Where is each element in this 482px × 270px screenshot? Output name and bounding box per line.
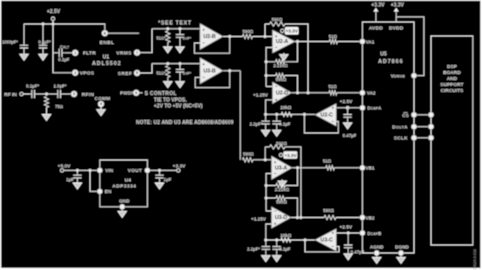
svg-text:590Ω: 590Ω — [242, 29, 253, 34]
svg-text:−: − — [202, 75, 205, 80]
resistor Rnet2 — [156, 66, 170, 78]
svg-text:2.21kΩ: 2.21kΩ — [275, 187, 290, 192]
junction railA fb — [303, 113, 306, 116]
junction reg cin — [76, 169, 79, 172]
label AD7866 — [378, 59, 403, 65]
svg-text:GND: GND — [119, 198, 130, 203]
label AVDD — [369, 25, 383, 31]
wire railA1 left — [265, 23, 270, 25]
capacitor C4 1uF series — [47, 90, 72, 98]
junction net1 C — [179, 27, 182, 30]
wire plus node up B — [264, 147, 266, 160]
ground Cnet1 — [176, 47, 184, 53]
pin DSP SCLK — [428, 135, 433, 140]
label COMM — [95, 96, 111, 101]
label U4 — [125, 177, 132, 183]
wire U3-C plus to dcapB — [336, 232, 362, 234]
label Cnet1 — [183, 36, 192, 41]
svg-text:AND: AND — [447, 76, 458, 82]
capacitor CFLT — [58, 49, 66, 57]
junction net2 R — [166, 62, 169, 65]
ground 0.47uF B — [344, 254, 352, 260]
label VPOS — [80, 71, 95, 77]
wire DOUTA to DSP — [417, 126, 429, 128]
svg-text:VB2: VB2 — [366, 215, 375, 220]
svg-text:BOARD: BOARD — [443, 70, 461, 76]
wire +2.5V stem — [52, 20, 54, 24]
label cap 0.1uF A — [279, 121, 290, 126]
svg-text:0.1µF*: 0.1µF* — [38, 39, 51, 44]
label DGND — [395, 244, 409, 249]
label DSP line1 — [447, 64, 458, 70]
wire U2-A minus — [266, 48, 272, 87]
resistor RoutB2 590 — [323, 208, 336, 220]
capacitor reg Cout — [155, 170, 163, 183]
wire vpos drop — [53, 24, 73, 73]
capacitor C2 0.1uF — [39, 24, 47, 54]
label GND — [119, 198, 130, 203]
op-amp U3-B — [200, 58, 223, 84]
svg-text:CS: CS — [402, 113, 409, 118]
svg-text:U5: U5 — [380, 51, 387, 57]
pin VIN — [97, 168, 102, 173]
wire U3-D minus — [266, 210, 271, 212]
wire 10k rail B — [266, 239, 315, 241]
ground Cnet2 — [176, 82, 184, 88]
wire U3-D out — [291, 217, 324, 219]
svg-text:0.1µF: 0.1µF — [279, 121, 290, 126]
pin DOUTA — [411, 124, 416, 129]
svg-text:51Ω: 51Ω — [323, 159, 332, 164]
resistor RinB 590 — [243, 152, 255, 162]
label VIN — [105, 168, 113, 173]
junction U3-D out fb — [296, 216, 299, 219]
svg-text:SREF: SREF — [118, 71, 132, 77]
label RFIN — [82, 92, 95, 98]
svg-text:+3.3V: +3.3V — [371, 2, 385, 8]
wire U3-B to channel B — [239, 71, 241, 160]
wire rnet2 stem — [167, 77, 169, 81]
label VA1 — [366, 39, 375, 44]
svg-text:0.47µF: 0.47µF — [343, 133, 357, 138]
wire RinB to U3-A — [253, 159, 272, 161]
junction dcapA cap node — [346, 107, 349, 110]
pin DSP CS — [428, 112, 433, 117]
junction reg en — [89, 169, 92, 172]
svg-text:2.2µF*: 2.2µF* — [250, 121, 263, 126]
svg-text:COMM: COMM — [95, 96, 111, 101]
wire EN branch — [90, 170, 97, 191]
label cap 2.2uF A — [250, 121, 263, 126]
terminal +5V — [60, 169, 63, 172]
label +3.3V dvdd — [391, 2, 405, 8]
svg-text:VDRIVE: VDRIVE — [391, 74, 406, 79]
svg-text:DGND: DGND — [395, 244, 409, 249]
label DSP line4 — [440, 82, 463, 88]
op-amp U3-C — [315, 229, 336, 251]
label DVDD — [389, 25, 404, 31]
junction U3-D out cross — [299, 216, 302, 219]
pin 6 PWDN of U1 — [133, 90, 139, 96]
pin 8 ENBL of U1 — [102, 30, 108, 36]
resistor Rnet1 — [156, 31, 170, 43]
label VB2 — [366, 215, 375, 220]
svg-text:VOUT: VOUT — [128, 168, 143, 173]
note about U2 U3 — [136, 120, 234, 126]
label EN — [105, 189, 112, 194]
junction railA cap2 — [275, 113, 278, 116]
wire U2-B feedback — [194, 37, 229, 54]
pin VB2 — [360, 215, 365, 220]
svg-text:U2-B: U2-B — [203, 34, 216, 40]
wire gnd stem — [121, 210, 123, 212]
junction fbA1 — [265, 60, 268, 63]
label ENBL — [100, 40, 115, 46]
pin GND — [120, 204, 125, 209]
supply arrow DVDD — [394, 8, 399, 17]
ground COMM — [97, 110, 105, 116]
wire U2-A vminus stem — [283, 53, 285, 55]
ground C1 — [20, 54, 28, 60]
ground reg Cout — [155, 183, 163, 189]
pin DSP DOUTA — [428, 124, 433, 129]
svg-text:2.21kΩ: 2.21kΩ — [273, 63, 288, 68]
wire U2-B out — [223, 36, 243, 38]
label DSP line2 — [443, 70, 461, 76]
label Cnet2 — [183, 71, 192, 76]
label cout 1uF — [164, 177, 172, 182]
terminal +3.3V — [177, 169, 180, 172]
svg-text:+1.25V: +1.25V — [251, 216, 267, 221]
ground U2-A — [280, 55, 288, 61]
resistor R10kA — [280, 105, 292, 117]
ADC U5 AD7866 box — [362, 22, 414, 253]
ground regulator — [118, 211, 126, 217]
svg-text:+: + — [202, 62, 205, 67]
svg-text:NOTE: U2 AND U3 ARE AD8608/AD8: NOTE: U2 AND U3 ARE AD8608/AD8609 — [136, 120, 234, 126]
svg-text:1nF*: 1nF* — [183, 71, 192, 76]
capacitor Cnet1 — [176, 29, 184, 47]
svg-text:51Ω*: 51Ω* — [156, 36, 166, 41]
label DOUTA — [392, 125, 408, 130]
label FLTR — [83, 51, 96, 57]
resistor RfB1 590 top — [270, 141, 288, 149]
pin CS — [411, 112, 416, 117]
wire fbA2 wires — [266, 76, 297, 93]
svg-text:1.0µF*: 1.0µF* — [53, 84, 66, 89]
junction railB fb — [304, 239, 307, 242]
svg-text:DCAPA: DCAPA — [367, 106, 382, 111]
pin VB1 — [360, 165, 365, 170]
wire VRMS to rail — [139, 29, 152, 53]
label +5.0V — [58, 163, 71, 169]
svg-text:DVDD: DVDD — [389, 25, 404, 31]
svg-text:−: − — [331, 119, 334, 124]
svg-text:590Ω: 590Ω — [243, 152, 254, 157]
junction rail C2 — [42, 23, 45, 26]
svg-text:AGND: AGND — [370, 244, 384, 249]
wire +2.5V rail — [24, 24, 105, 31]
wire U3-C feedback — [305, 240, 339, 252]
resistor R10kB — [280, 233, 292, 242]
label +1.25V node B — [251, 216, 267, 221]
resistor RoutA2 51 — [328, 84, 337, 95]
label C3 value — [26, 84, 39, 89]
wire dvdd stem — [395, 17, 397, 22]
resistor R1 75 ohm shunt — [44, 97, 62, 110]
wire RinA to U2-A — [253, 36, 273, 38]
svg-text:−: − — [275, 84, 278, 89]
pin 1 FLTR of U1 — [72, 50, 78, 56]
svg-text:1µF: 1µF — [66, 177, 74, 182]
op-amp U2-B — [200, 24, 223, 50]
svg-text:1nF*: 1nF* — [183, 36, 192, 41]
svg-text:0.1µF: 0.1µF — [279, 247, 290, 252]
op-amp U2-C — [315, 104, 336, 126]
svg-text:U4: U4 — [125, 177, 132, 183]
label DSP line5 — [441, 88, 464, 94]
svg-text:−: − — [274, 171, 277, 176]
resistor RoutB1 51 — [323, 159, 335, 170]
capacitor 2.2uF B — [262, 240, 270, 256]
wire rail to U2-B — [152, 28, 200, 30]
capacitor 0.1uF A — [273, 114, 281, 130]
label SREF — [118, 71, 132, 77]
label +2.5V dcapA — [340, 99, 353, 105]
wire 10k rail A — [266, 113, 315, 115]
wire U2-A out — [295, 41, 329, 43]
svg-text:+3.3V: +3.3V — [391, 2, 405, 8]
overline CS — [404, 112, 408, 114]
svg-text:+: + — [274, 221, 277, 226]
pin 4 COMM of U1 — [98, 101, 104, 107]
supply arrow AVDD — [373, 8, 378, 22]
svg-text:590Ω: 590Ω — [323, 208, 334, 213]
pin DCAPB — [360, 230, 365, 235]
svg-text:+2.5V: +2.5V — [47, 9, 61, 15]
note pwdn line2 — [154, 98, 187, 104]
label DCAPA — [367, 106, 382, 111]
svg-text:DOUTA: DOUTA — [392, 125, 408, 130]
svg-text:U3-D: U3-D — [275, 215, 288, 221]
ground 0.1uF A — [273, 130, 281, 136]
capacitor C1 1000pF — [20, 24, 28, 54]
svg-text:SCLK: SCLK — [394, 136, 408, 141]
label CS — [402, 113, 409, 118]
svg-text:*SEE TEXT: *SEE TEXT — [158, 20, 192, 26]
svg-text:+: + — [275, 97, 278, 102]
pin 5 SREF of U1 — [134, 70, 140, 76]
svg-text:+: + — [274, 160, 277, 165]
junction U2-A out fb — [296, 40, 299, 43]
svg-text:U1: U1 — [103, 55, 110, 61]
label U5 — [380, 51, 387, 57]
svg-text:0.1µF: 0.1µF — [58, 57, 69, 62]
junction fbA2 — [265, 74, 268, 77]
pin AGND — [374, 250, 379, 255]
wire to VA1 — [338, 41, 363, 43]
svg-text:−: − — [331, 244, 334, 249]
label +2.5V dcapB — [339, 224, 352, 230]
junction U2-A plus node — [264, 35, 267, 38]
wire plus node up — [264, 24, 266, 37]
junction railB cap2 — [275, 239, 278, 242]
wire railA1 right — [285, 24, 308, 93]
svg-text:+5.0V: +5.0V — [58, 163, 71, 169]
svg-text:590Ω: 590Ω — [276, 77, 287, 82]
svg-text:+3.3V: +3.3V — [173, 163, 186, 169]
resistor RfbA 2.21k — [273, 60, 288, 69]
svg-text:1000pF*: 1000pF* — [2, 39, 18, 44]
svg-text:U2-D: U2-D — [276, 91, 289, 97]
note pwdn line3 — [154, 104, 203, 110]
wire pin8 stub — [107, 32, 139, 34]
svg-text:ADP3334: ADP3334 — [112, 184, 136, 190]
label see text — [158, 20, 192, 26]
svg-text:51Ω: 51Ω — [329, 34, 338, 39]
label ADP3334 — [112, 184, 136, 190]
junction fbB2 — [265, 197, 268, 200]
svg-text:590Ω: 590Ω — [276, 200, 287, 205]
wire rail to U3-B — [152, 63, 200, 65]
figure watermark — [473, 249, 477, 269]
label CFLT — [60, 44, 70, 49]
svg-text:DCAPB: DCAPB — [367, 231, 382, 236]
wire rnet1 stem — [167, 43, 169, 47]
svg-text:2.2µF*: 2.2µF* — [247, 247, 260, 252]
svg-text:VPOS: VPOS — [80, 71, 95, 77]
label VA2 — [367, 91, 376, 96]
junction fbB1 — [265, 184, 268, 187]
pin SCLK — [411, 135, 416, 140]
label VOUT — [128, 168, 143, 173]
terminal RF input — [20, 92, 23, 95]
op-amp U3-D — [272, 207, 292, 229]
svg-text:RFIN: RFIN — [82, 92, 95, 98]
ground Rnet2 — [164, 82, 172, 88]
wire fbB1 wires — [266, 168, 297, 186]
svg-text:U3-B: U3-B — [203, 69, 216, 75]
pin 7 VRMS of U1 — [134, 50, 140, 56]
pin EN — [97, 189, 102, 194]
pin DGND — [398, 250, 403, 255]
wire U3-A minus — [266, 174, 271, 212]
svg-text:+3.3V: +3.3V — [286, 29, 299, 34]
label cin 1uF — [66, 177, 74, 182]
resistor RfbB 2.21k — [275, 183, 290, 192]
label 0.47uF A — [343, 133, 357, 138]
svg-text:−: − — [274, 209, 277, 214]
pin VA2 — [360, 90, 365, 95]
terminal +2.5V — [51, 17, 54, 20]
svg-text:+: + — [331, 231, 334, 236]
label C4 value — [53, 84, 66, 89]
wire to VB1 — [334, 167, 362, 169]
supply U2-A +3.3V — [281, 27, 299, 35]
svg-text:+1.25V: +1.25V — [253, 93, 269, 98]
ground Rnet1 — [164, 47, 172, 53]
svg-text:0.1µF*: 0.1µF* — [26, 84, 39, 89]
ground C2 — [39, 54, 47, 60]
label C2 value 0.1uF — [38, 39, 51, 44]
wire U2-C feedback — [304, 114, 338, 133]
ground shunt resistor — [42, 115, 50, 121]
ground reg Cin — [73, 183, 81, 189]
wire U3-A vminus stem — [281, 180, 283, 182]
capacitor C3 0.1uF series — [29, 90, 47, 98]
wire SREF to rail — [139, 64, 152, 73]
junction railB cap1 — [264, 239, 267, 242]
label VB1 — [366, 166, 375, 171]
junction U2-D out cross — [307, 91, 310, 94]
svg-text:U3-A: U3-A — [275, 165, 288, 171]
supply U3-A +3.3V — [279, 151, 297, 159]
svg-text:+: + — [202, 28, 205, 33]
junction U3-B out — [228, 69, 231, 72]
op-amp U2-D — [273, 82, 292, 104]
svg-text:VRMS: VRMS — [116, 50, 132, 56]
svg-text:DSP: DSP — [447, 64, 458, 70]
pin 3 RFIN of U1 — [71, 91, 77, 97]
svg-text:51Ω*: 51Ω* — [156, 71, 166, 76]
label DCAPB — [367, 231, 382, 236]
wire fltr to pin — [65, 52, 73, 54]
wire reg output — [150, 169, 177, 171]
regulator U4 box — [100, 160, 148, 207]
op-amp U3-A — [272, 156, 293, 180]
wire fbA1 wires — [266, 42, 297, 62]
note pwdn line1 — [145, 91, 177, 97]
wire to VA2 — [337, 92, 363, 94]
ground DGND — [397, 257, 405, 263]
label RF IN — [4, 92, 17, 98]
wire U2-D out — [292, 92, 330, 94]
wire comm stem — [100, 106, 102, 109]
ground 0.1uF B — [273, 256, 281, 262]
svg-text:VIN: VIN — [105, 168, 113, 173]
wire pwdn dash — [139, 92, 143, 94]
ground 2.2uF B — [262, 256, 270, 262]
svg-text:04624-0-038: 04624-0-038 — [473, 249, 477, 269]
label PWDN — [120, 91, 135, 96]
svg-text:590Ω: 590Ω — [276, 141, 287, 146]
svg-text:VB1: VB1 — [366, 166, 375, 171]
svg-text:1µF: 1µF — [164, 177, 172, 182]
junction reg cout — [158, 169, 161, 172]
svg-text:VA1: VA1 — [366, 39, 375, 44]
label CFLT value 0.1uF — [58, 57, 69, 62]
svg-text:10kΩ: 10kΩ — [280, 105, 292, 110]
resistor RfbD2 590 — [276, 196, 287, 205]
svg-text:U3-C: U3-C — [321, 238, 334, 244]
resistor RinA 590 — [242, 29, 253, 39]
pin VOUT — [145, 168, 150, 173]
svg-text:+2V TO +5V (NC=5V): +2V TO +5V (NC=5V) — [154, 104, 203, 110]
svg-text:AD7866: AD7866 — [378, 59, 403, 65]
label DSP line3 — [447, 76, 458, 82]
junction dcapB cap node — [347, 232, 350, 235]
svg-text:590Ω: 590Ω — [272, 17, 283, 22]
svg-text:RF IN: RF IN — [4, 92, 17, 98]
svg-text:SUPPORT: SUPPORT — [440, 82, 463, 88]
label VRMS — [116, 50, 132, 56]
resistor RfA1 590 top — [270, 17, 286, 26]
svg-text:+3.3V: +3.3V — [284, 153, 297, 158]
svg-text:ADL5502: ADL5502 — [92, 61, 122, 67]
wire U2-D minus — [266, 86, 272, 88]
label SCLK — [394, 136, 408, 141]
svg-text:75Ω: 75Ω — [55, 104, 63, 109]
